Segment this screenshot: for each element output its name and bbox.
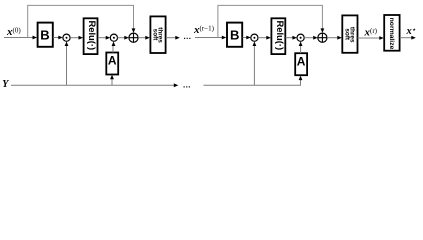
block softthres2 bbox=[342, 15, 357, 52]
svg-text:Relu(·): Relu(·) bbox=[87, 20, 98, 50]
multiplier M4 bbox=[297, 34, 304, 41]
wire skip connection layer 2 bbox=[218, 5, 323, 37]
multiplier M2 bbox=[110, 34, 117, 41]
wire Y rail corner to A2 bbox=[204, 79, 301, 85]
wire output bbox=[400, 37, 413, 39]
block Relu2 bbox=[271, 18, 285, 54]
wire soft1 out bbox=[166, 37, 177, 39]
wire skip connection layer 1 bbox=[28, 5, 134, 37]
multiplier M1 bbox=[63, 34, 70, 41]
wire into B2 bbox=[195, 37, 223, 39]
svg-text:B: B bbox=[40, 28, 49, 43]
block A1 bbox=[106, 53, 118, 75]
adder S2 bbox=[318, 33, 327, 42]
multiplier M3 bbox=[251, 34, 258, 41]
wire B1 to mult1 bbox=[53, 37, 59, 39]
svg-text:...: ... bbox=[183, 80, 191, 89]
svg-text:A: A bbox=[297, 54, 306, 68]
block B2 bbox=[227, 23, 242, 47]
wire B2 to mult3 bbox=[243, 37, 248, 39]
block softthres1 bbox=[150, 16, 165, 53]
svg-text:...: ... bbox=[184, 32, 192, 41]
wire Relu1 to mult2 bbox=[98, 37, 107, 39]
wire Relu2 to mult4 bbox=[286, 37, 294, 39]
wire A1 to M2 bbox=[112, 45, 114, 53]
wire soft2 to normalize bbox=[358, 37, 381, 39]
svg-text:normalize: normalize bbox=[388, 18, 395, 50]
wire add2 to soft2 bbox=[327, 37, 339, 39]
wire Y rail left bbox=[11, 84, 175, 86]
svg-text:B: B bbox=[230, 28, 239, 43]
svg-text:Relu(·): Relu(·) bbox=[275, 20, 286, 50]
wire Y rail to M3 bbox=[253, 45, 255, 86]
wire Y rail to A1 bbox=[111, 78, 113, 85]
block A2 bbox=[295, 53, 307, 75]
wire Y rail to M1 bbox=[66, 45, 68, 86]
svg-text:Y: Y bbox=[2, 79, 9, 90]
svg-text:A: A bbox=[108, 54, 117, 68]
wire M3 to Relu2 bbox=[258, 37, 267, 39]
wire M2 to add1 bbox=[118, 37, 126, 39]
wire M4 to add2 bbox=[304, 37, 314, 39]
wire A2 to M4 bbox=[300, 45, 302, 54]
svg-text:thres: thres bbox=[157, 27, 164, 43]
svg-text:thres: thres bbox=[349, 27, 356, 43]
block Relu1 bbox=[84, 18, 98, 54]
wire M1 to Relu1 bbox=[70, 37, 79, 39]
wire input to B bbox=[4, 37, 34, 39]
block normalize bbox=[384, 15, 399, 51]
wire add1 to soft1 bbox=[138, 37, 146, 39]
adder S1 bbox=[129, 33, 138, 42]
block B1 bbox=[38, 23, 53, 47]
